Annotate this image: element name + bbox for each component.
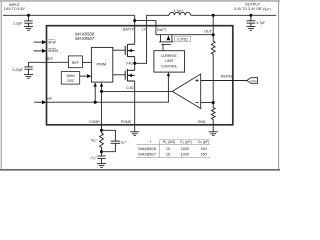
node out junction [212,14,215,17]
svg-text:PWM: PWM [97,61,107,66]
node DAC tag [247,78,258,84]
transistor Q3 bypass FET [159,35,174,51]
svg-text:1500: 1500 [181,147,189,151]
svg-text:0.3Ω: 0.3Ω [126,86,134,90]
svg-text:CF*: CF* [121,140,127,145]
resistor R1 feedback top [211,41,215,102]
capacitor CF [102,130,121,151]
wire HP to current limit [47,75,169,102]
label Q3 0.075ohm [175,36,191,41]
svg-text:REF: REF [46,57,54,61]
ground PGND [130,132,139,136]
svg-text:1MHz: 1MHz [66,74,75,78]
capacitor CC [97,152,105,164]
ground C1 [24,27,33,31]
border frame [0,0,280,2]
svg-text:1000: 1000 [181,153,189,157]
wire PWM input 1 [94,86,96,103]
svg-text:CURRENT-: CURRENT- [161,54,178,58]
node INPUT label [4,3,26,11]
wire PWM gate low-side [113,74,125,76]
wire OSC to PWM with arrow [80,75,88,77]
svg-text:150: 150 [200,147,206,151]
svg-text:OSC: OSC [67,79,75,83]
pin LX wire [135,15,169,63]
svg-text:0.4V TO 3.4V OR VBATT: 0.4V TO 3.4V OR VBATT [234,7,271,12]
IC part name MAX8506 MAX8507 [75,31,95,41]
resistor RC compensation [100,130,104,151]
pin REFIN wire [201,80,247,82]
svg-text:REF: REF [72,61,80,65]
svg-text:2.6V TO 5.5V: 2.6V TO 5.5V [4,7,26,11]
node OUTPUT label [234,2,271,11]
svg-text:2.2µF: 2.2µF [13,22,22,26]
svg-text:CC*: CC* [91,156,97,161]
svg-text:REFIN: REFIN [221,74,232,78]
wire output rail [191,14,277,16]
pin BATTP wire [134,15,136,44]
pin SHDN wire with arrow [34,50,43,52]
node comp network bottom junction [100,150,103,153]
svg-text:15: 15 [166,153,170,157]
wire PWM input 2 COMP [101,86,103,131]
block oscillator 1MHz OSC [61,72,79,85]
node LX junction [133,62,136,65]
node OUT junction [212,33,215,36]
svg-text:GND: GND [198,120,206,124]
svg-text:10: 10 [166,147,170,151]
wire input rail [3,14,135,16]
svg-text:BATTP: BATTP [123,28,135,32]
svg-text:150: 150 [200,153,206,157]
pin PGND wire [134,81,136,132]
svg-text:CC (pF): CC (pF) [180,140,192,145]
svg-text:DAC: DAC [250,79,257,83]
op-amp U1 error amplifier [172,74,200,109]
svg-text:CF (pF): CF (pF) [198,140,209,145]
pin SKIP wire with arrow [34,41,43,43]
svg-text:4.7µF: 4.7µF [256,21,265,25]
svg-text:SKIP: SKIP [48,40,57,44]
node FB junction [212,101,215,104]
ground C3 [24,74,33,78]
block PWM box [91,47,112,82]
svg-text:SHDN: SHDN [48,49,58,53]
ground GND [209,132,218,136]
capacitor C1 2.2uF [24,15,32,26]
wire FET chain [134,57,136,71]
ground C2 [246,27,255,31]
svg-text:RC (kΩ): RC (kΩ) [163,140,175,145]
node COMP junction on amp line [100,90,103,93]
svg-text:0.075Ω: 0.075Ω [177,37,188,41]
svg-text:HP: HP [47,97,53,101]
svg-text:4.7µH: 4.7µH [173,9,183,13]
wire amp output to COMP [102,90,173,92]
svg-text:LX: LX [142,28,147,32]
pin BATT wire [135,21,156,35]
wire PWM gate high-side [113,49,125,51]
capacitor C3 0.22uF [24,62,32,74]
block current limit control [154,51,185,72]
svg-text:*: * [150,140,152,145]
resistor R2 feedback bottom [211,103,215,132]
table component values [137,140,211,158]
svg-text:0.4Ω: 0.4Ω [126,62,134,66]
pin OUT wire [212,15,214,41]
ground CC [97,164,106,168]
node BATT branch junction [133,19,136,22]
svg-text:LIMIT: LIMIT [165,59,173,63]
transistor Q2 low-side FET [125,69,135,81]
svg-text:OUT: OUT [204,30,212,34]
transistor Q1 high-side FET [125,44,135,56]
svg-text:0.22µF: 0.22µF [12,68,23,72]
node cap junction [249,14,252,17]
svg-text:BATT: BATT [157,28,167,32]
node comp network top junction [100,129,103,132]
node input junction [27,14,30,17]
capacitor C2 4.7uF [247,15,256,26]
IC MAX8506 box [47,26,233,125]
svg-text:PGND: PGND [121,120,132,124]
wire BATT to OUT through bypass [156,34,213,36]
svg-text:MAX8507: MAX8507 [75,36,95,41]
node HP junction [94,101,97,104]
pin HP wire with arrow [34,101,42,103]
svg-text:MAX8506: MAX8506 [138,146,156,151]
svg-text:CONTROL: CONTROL [161,64,177,68]
wire REF to PWM [82,61,91,63]
wire amp minus input [201,102,214,104]
svg-text:RC*: RC* [91,138,97,143]
svg-text:COMP: COMP [89,120,100,124]
inductor L1 4.7uH [169,12,191,15]
svg-text:OUTPUT: OUTPUT [245,2,261,6]
svg-text:MAX8507: MAX8507 [138,152,156,157]
pin REF wire [29,61,69,63]
block REF box [68,56,82,68]
